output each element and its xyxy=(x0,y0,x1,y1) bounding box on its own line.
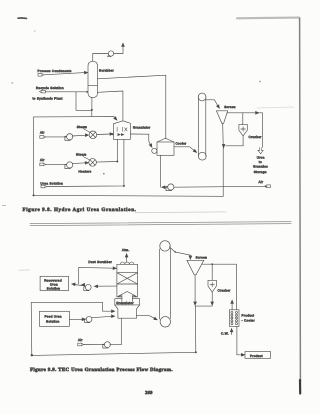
steam feed line into heater row2 xyxy=(83,157,90,160)
screen underflow drop line xyxy=(222,123,225,145)
junction dot row2 riser xyxy=(116,161,118,163)
svg-text:Air: Air xyxy=(78,338,83,342)
svg-text:Crusher: Crusher xyxy=(249,135,262,139)
line blower to heater row2 with arrow xyxy=(72,161,88,164)
svg-text:to: to xyxy=(259,160,262,164)
blower discharge into cooler bottom xyxy=(161,155,168,188)
steam feed line into heater row1 xyxy=(84,129,90,132)
scan artifact smudge line top-right xyxy=(237,17,299,20)
crusher return line to recycle loop xyxy=(222,136,243,148)
screen S-2 funnel xyxy=(187,260,204,275)
dust scrubber demister scallops xyxy=(120,262,133,264)
recycle solution line from seal tank xyxy=(46,91,77,93)
svg-text:Screen: Screen xyxy=(196,255,208,259)
svg-text:Recycle Solution: Recycle Solution xyxy=(36,86,64,90)
scan speck right area xyxy=(259,81,260,82)
elevator to screen feed line xyxy=(206,100,221,109)
svg-text:Urea Solution: Urea Solution xyxy=(40,181,63,185)
svg-text:Heaters: Heaters xyxy=(79,169,92,173)
process condensate line into scrubber xyxy=(44,71,88,75)
vent line to atmosphere with up arrow xyxy=(114,43,125,53)
elevator E-1 boot pulley xyxy=(198,152,206,160)
recycle loop left vertical xyxy=(30,302,33,355)
scan artifact right edge bottom blob xyxy=(299,380,301,394)
scrubber right outlet lower line down to granulator top xyxy=(98,91,123,121)
svg-text:Air: Air xyxy=(40,158,45,162)
scan speck upper left margin xyxy=(12,82,14,83)
blower B-1 row1 xyxy=(65,134,73,141)
screen overflow line to product cooler xyxy=(202,264,236,310)
svg-text:Dust Scrubber: Dust Scrubber xyxy=(88,260,112,264)
scrubber bottom drain pipe into seal tank xyxy=(91,98,93,110)
granulator spray internals xyxy=(117,127,127,131)
recycle loop right vertical from screen underflow xyxy=(222,147,224,197)
corner blob loop bottom left xyxy=(31,354,33,356)
junction dot granulator row1 inlet xyxy=(112,133,114,135)
heated air line into granulator row1 xyxy=(97,133,114,136)
scan speck xyxy=(34,31,36,32)
recycle solution outlet symbol xyxy=(40,90,46,93)
pump line to recovered urea tank with tee xyxy=(72,283,85,286)
corner dot loop bottom left xyxy=(33,194,35,196)
recycle loop left vertical line xyxy=(33,117,35,195)
product cooler left coil bubbles xyxy=(231,311,233,324)
recovered urea solution box xyxy=(40,276,68,290)
recycle loop bottom line xyxy=(34,194,224,197)
scan artifact dark dash top-left xyxy=(18,17,27,20)
bucket elevator E-1 belt xyxy=(198,97,205,156)
svg-text:Atm.: Atm. xyxy=(122,248,130,252)
air line to heater xyxy=(84,344,104,346)
bucket elevator E-2 belt xyxy=(160,249,171,320)
label Product Cooler xyxy=(242,314,255,323)
faint bleed-through line right xyxy=(257,107,294,108)
air inlet symbol row2 xyxy=(40,163,46,166)
junction dot crusher feed xyxy=(211,263,213,265)
steam heater H-1 row1 circle with cross xyxy=(89,131,97,139)
product line from cooler to product box xyxy=(237,326,245,356)
line blower to heater row1 with arrow xyxy=(72,134,88,137)
scan speck xyxy=(103,173,105,174)
product box xyxy=(245,352,271,359)
drop from seal tank junction to recycle loop line xyxy=(91,110,93,116)
caption 9.8 trailing faint rule xyxy=(136,211,227,214)
svg-text:Cooler: Cooler xyxy=(176,142,187,146)
scan speck left margin xyxy=(2,205,6,206)
svg-text:Crusher: Crusher xyxy=(218,289,231,293)
recycle loop bottom line xyxy=(32,352,196,355)
svg-text:Product: Product xyxy=(242,314,255,318)
recycle loop top line into granulator xyxy=(34,117,118,121)
heated air line row2 rising into granulator bottom xyxy=(96,139,117,162)
granulator G-1 vessel xyxy=(113,121,130,140)
svg-text:Steam: Steam xyxy=(77,125,88,129)
junction dot seal tank top left of column xyxy=(86,91,88,93)
granulator G-2 lower body xyxy=(115,305,140,318)
svg-text:Granulator: Granulator xyxy=(116,301,134,305)
label Feed Urea Solution xyxy=(45,315,62,324)
cooling water line with up arrow into cooler xyxy=(230,329,233,335)
svg-text:Process Condensate: Process Condensate xyxy=(38,69,72,73)
product cooler PC-1 shell xyxy=(229,310,239,327)
air line row1 to blower xyxy=(46,136,66,138)
scrubber bottoms line to pump xyxy=(94,285,117,288)
svg-text:Figure 9.9. TEC Urea Granulati: Figure 9.9. TEC Urea Granulation Process… xyxy=(30,367,173,373)
svg-text:269: 269 xyxy=(145,390,153,396)
cooler vent line with up arrow xyxy=(231,300,234,310)
double rule separator lower xyxy=(30,224,291,226)
feed line to pump with arrow xyxy=(69,318,85,321)
scrubber right outlet upper line to cooler top xyxy=(98,75,166,138)
scrubber internal tray xyxy=(88,85,97,87)
screen overflow line to storage with arrow xyxy=(227,112,263,148)
air inlet symbol right xyxy=(265,185,271,188)
elevator to screen feed line xyxy=(169,247,191,260)
faint smudge left of recovered box xyxy=(19,269,30,272)
dust scrubber lower tray xyxy=(117,283,138,285)
cooler discharge line to elevator boot xyxy=(174,147,197,154)
recirculation spray line into scrubber top xyxy=(79,267,117,284)
hollow block arrow to storage xyxy=(258,148,263,154)
svg-text:Feed Urea: Feed Urea xyxy=(45,315,62,319)
atmosphere vent line with up arrow xyxy=(125,254,128,262)
vent fan circle xyxy=(108,51,114,57)
dust scrubber upper tray xyxy=(117,272,138,274)
dust scrubber tower shell xyxy=(117,264,138,297)
cooler C-1 box with roof xyxy=(157,138,174,155)
svg-text:to Synthesis Plant: to Synthesis Plant xyxy=(33,97,63,101)
svg-text:Granules: Granules xyxy=(253,165,268,169)
cooler rotary inlet valve circle xyxy=(152,148,157,153)
crusher feed drop line xyxy=(242,113,244,125)
air inlet symbol row1 xyxy=(40,136,46,139)
junction dot loop bottom right xyxy=(195,351,197,353)
feed line into granulator xyxy=(92,315,115,318)
granulator discharge to elevator boot xyxy=(137,316,158,321)
feed pump P-2 xyxy=(85,316,92,322)
granulator discharge line to cooler inlet xyxy=(130,134,153,148)
svg-text:- Cooler: - Cooler xyxy=(242,318,255,322)
junction dot seal tank bottom xyxy=(91,109,93,111)
collect line under screen and crusher xyxy=(195,305,212,307)
elevator E-1 top pulley xyxy=(198,93,206,101)
svg-text:Granulator: Granulator xyxy=(133,126,151,130)
svg-text:Screen: Screen xyxy=(224,105,236,109)
elevator E-2 top pulley xyxy=(160,241,170,251)
granulator G-2 upper box xyxy=(115,299,140,305)
heated air riser into granulator bottom xyxy=(110,318,121,345)
urea solution inlet symbol xyxy=(41,185,47,188)
svg-text:Scrubber: Scrubber xyxy=(99,69,114,73)
label Urea to Granules Storage xyxy=(253,156,268,174)
steam heater H-2 row2 circle with cross xyxy=(89,159,97,167)
svg-text:Urea: Urea xyxy=(257,156,265,160)
cooling air blower B-3 xyxy=(166,184,174,191)
recycle return line into granulator xyxy=(31,302,115,312)
svg-text:Solution: Solution xyxy=(47,286,61,290)
scan artifact right edge vertical line xyxy=(299,18,302,382)
recirculation pump P-1 xyxy=(84,284,91,290)
feed urea solution box xyxy=(40,311,70,326)
elevator E-2 boot pulley xyxy=(160,317,170,327)
crusher feed drop line xyxy=(211,264,213,280)
crusher CR-2 vessel with cross xyxy=(208,280,216,292)
double rule separator upper xyxy=(30,222,291,224)
svg-text:Solution: Solution xyxy=(46,320,60,324)
screen S-1 funnel xyxy=(216,111,227,124)
urea solution line rising into granulator bottom xyxy=(47,139,124,186)
scrubber column vessel xyxy=(88,61,98,97)
svg-text:Storage: Storage xyxy=(254,170,267,174)
svg-text:Figure 9.8. Hydro Agri Urea Gr: Figure 9.8. Hydro Agri Urea Granulation. xyxy=(23,207,137,213)
recycle loop drop to bottom line xyxy=(194,306,196,352)
air line row2 to blower xyxy=(46,163,66,165)
svg-text:Steam: Steam xyxy=(76,153,87,157)
riser duct block arrow from granulator to scrubber xyxy=(118,292,137,302)
junction dot urea riser xyxy=(123,185,125,187)
granulator internal spray arrows xyxy=(118,134,124,136)
svg-text:Air: Air xyxy=(259,180,264,184)
svg-text:Product: Product xyxy=(250,354,263,358)
blower B-2 row2 xyxy=(65,162,73,169)
fluidization air heater H-3 xyxy=(103,342,111,348)
label Recovered Urea Solution xyxy=(44,278,62,290)
crusher return drop to collect line xyxy=(211,292,214,305)
product cooler right coil bubbles xyxy=(236,311,238,324)
screen underflow drop line xyxy=(194,275,197,305)
seal tank box under scrubber xyxy=(76,92,92,111)
svg-text:Air: Air xyxy=(40,131,45,135)
process condensate inlet symbol xyxy=(38,74,44,77)
svg-text:C.W.: C.W. xyxy=(221,331,229,335)
dust scrubber packing cross xyxy=(117,273,138,284)
air inlet symbol bottom xyxy=(78,343,84,346)
vent line from scrubber top to fan xyxy=(93,54,109,62)
crusher CR-1 vessel with cross xyxy=(239,125,247,136)
cooling air line to blower xyxy=(174,185,267,188)
